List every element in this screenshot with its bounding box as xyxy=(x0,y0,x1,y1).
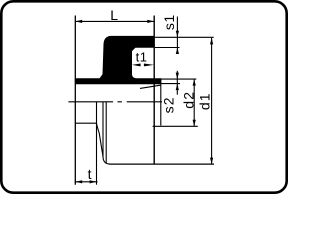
svg-text:t: t xyxy=(88,166,92,182)
svg-text:L: L xyxy=(110,7,118,23)
svg-text:d2: d2 xyxy=(180,91,196,109)
svg-text:t1: t1 xyxy=(136,50,148,65)
svg-text:s1: s1 xyxy=(161,14,177,30)
svg-text:s2: s2 xyxy=(161,96,177,113)
svg-text:d1: d1 xyxy=(196,92,212,110)
